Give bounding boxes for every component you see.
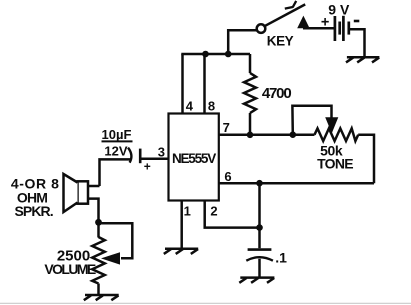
svg-text:1: 1 xyxy=(184,204,191,219)
svg-text:7: 7 xyxy=(223,120,230,135)
potentiometer R3 2500 body xyxy=(92,222,105,295)
battery BT1 9V plates xyxy=(335,16,349,41)
svg-text:+: + xyxy=(321,14,329,30)
label 10uF over 12V xyxy=(102,127,132,159)
node junction speaker/volume pot xyxy=(95,219,102,226)
capacitor C2 .1 top plate xyxy=(248,248,272,251)
svg-text:3: 3 xyxy=(158,144,165,159)
capacitor C1 10uF curved plate xyxy=(128,148,131,163)
wire top supply bus xyxy=(181,53,250,56)
svg-text:+: + xyxy=(144,159,151,173)
capacitor C2 .1 bottom curved plate xyxy=(246,257,273,261)
node junction R1/pin7 xyxy=(247,132,254,139)
label 4-OR 8 / OHM / SPKR. xyxy=(11,176,60,219)
wire pin6 junction down to capacitor C2 xyxy=(258,183,261,248)
capacitor C1 10uF straight plate xyxy=(139,149,142,164)
wire pin 6 line xyxy=(219,182,374,185)
node junction pin8/top bus xyxy=(202,51,209,58)
speaker LS1 cone xyxy=(64,174,78,212)
wire capacitor C2 to ground xyxy=(258,259,261,278)
potentiometer R2 wiper arrow xyxy=(325,117,338,133)
wire pin 2 dogleg xyxy=(205,201,260,228)
wire pin 1 to ground xyxy=(180,201,183,249)
svg-text:4: 4 xyxy=(186,98,194,113)
switch S1 KEY lever arm xyxy=(265,4,305,25)
ground battery xyxy=(346,57,379,62)
switch S1 KEY fixed contact triangle xyxy=(297,16,309,29)
node junction key branch/top bus xyxy=(225,51,232,58)
switch S1 KEY pivot circle xyxy=(257,24,266,33)
svg-text:8: 8 xyxy=(208,98,215,113)
ground capacitor C2 xyxy=(239,278,274,283)
wire key branch riser xyxy=(228,30,257,54)
svg-text:KEY: KEY xyxy=(267,33,294,48)
wire pin 7 line xyxy=(219,134,293,137)
svg-text:12V: 12V xyxy=(104,143,127,158)
wire key contact to battery positive xyxy=(303,27,334,30)
wire speaker top terminal xyxy=(88,185,100,188)
svg-text:9 V: 9 V xyxy=(328,2,350,18)
svg-text:VOLUME: VOLUME xyxy=(44,261,96,277)
ground pin 1 xyxy=(164,249,198,254)
speaker LS1 driver box xyxy=(78,181,89,203)
wire capacitor C1 to speaker riser xyxy=(100,159,132,186)
ground volume pot xyxy=(84,295,119,300)
node junction pin6/cap branch xyxy=(256,180,263,187)
wire speaker bottom terminal xyxy=(88,199,99,223)
wire tone wiper loop xyxy=(292,106,331,135)
svg-text:TONE: TONE xyxy=(317,155,353,171)
wire pin4 riser to top bus xyxy=(181,54,184,114)
label battery minus xyxy=(354,20,360,23)
svg-text:10µF: 10µF xyxy=(102,127,132,142)
wire pin8 riser to top bus xyxy=(203,54,206,114)
resistor R1 4700 xyxy=(244,54,256,135)
switch S1 KEY lever handle crossbar xyxy=(285,1,296,9)
faint page rule at bottom xyxy=(0,302,411,304)
potentiometer R3 wiper arrow xyxy=(101,252,120,264)
svg-text:2: 2 xyxy=(210,204,217,219)
svg-text:NE555V: NE555V xyxy=(172,151,216,166)
node junction tone loop/pin7 xyxy=(290,131,297,138)
node junction pin2/cap branch xyxy=(256,224,263,231)
svg-text:SPKR.: SPKR. xyxy=(14,203,52,219)
svg-text:4700: 4700 xyxy=(262,85,291,102)
wire pin 3 to capacitor C1 xyxy=(142,157,169,160)
wire battery negative to ground xyxy=(350,29,365,56)
svg-text:6: 6 xyxy=(224,169,231,184)
svg-text:.1: .1 xyxy=(275,249,287,265)
fraction bar of value label xyxy=(102,140,133,142)
wire volume wiper loop xyxy=(99,223,133,258)
potentiometer R2 50k body xyxy=(293,128,374,183)
IC U1 NE555V timer xyxy=(169,114,219,201)
